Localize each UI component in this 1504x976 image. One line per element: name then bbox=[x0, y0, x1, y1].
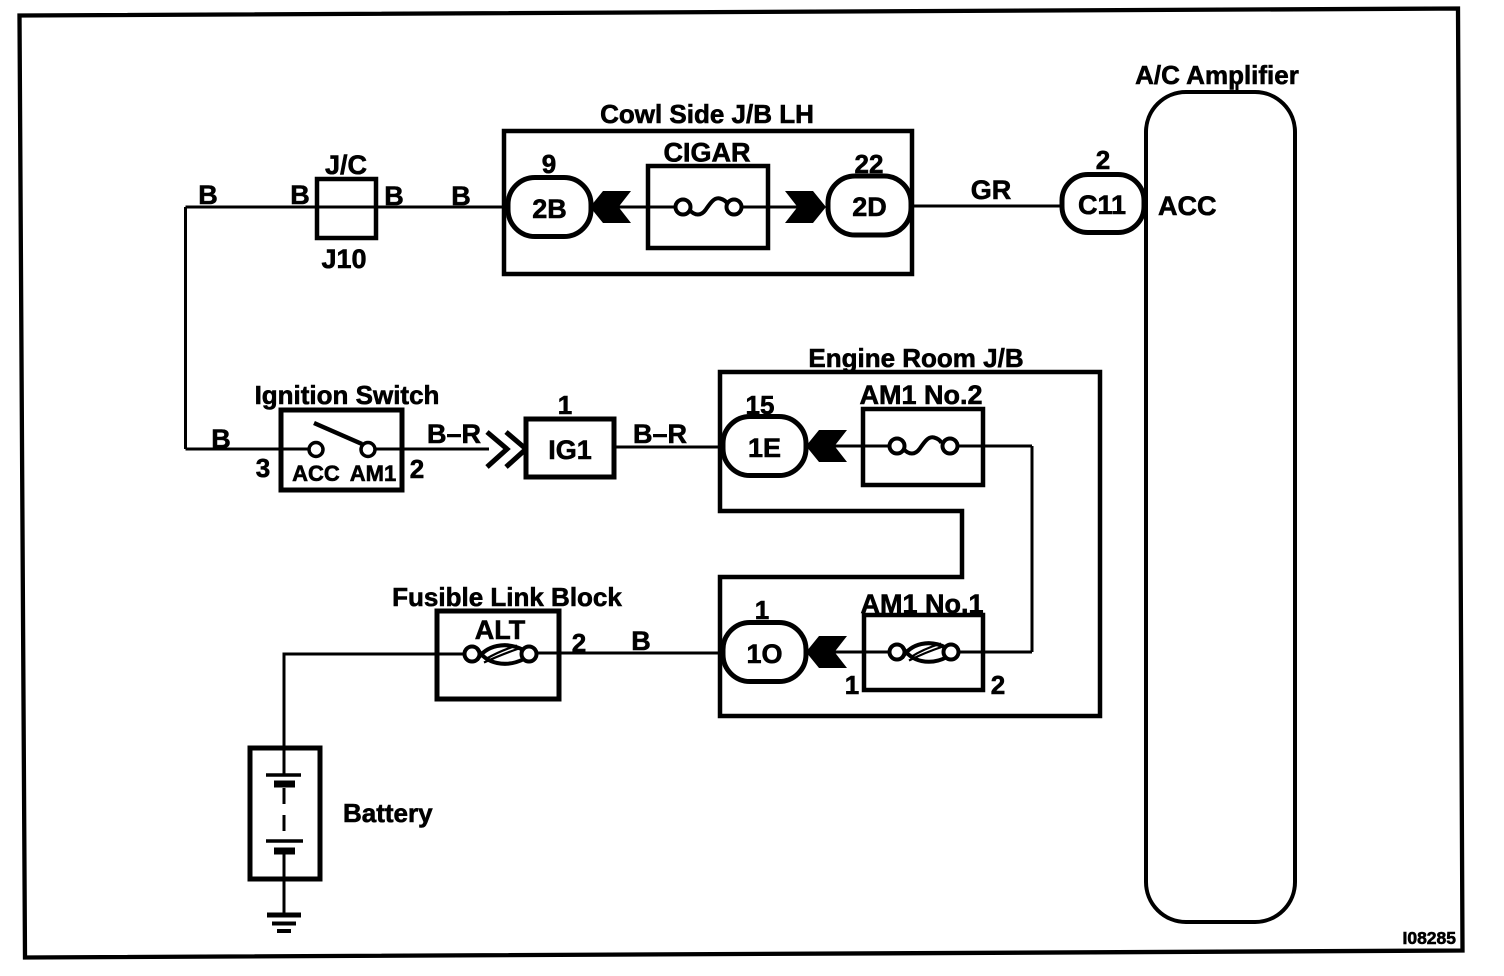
svg-text:B: B bbox=[211, 424, 231, 454]
svg-text:2D: 2D bbox=[852, 192, 887, 222]
battery bbox=[250, 748, 433, 879]
svg-text:1O: 1O bbox=[746, 639, 782, 669]
wire: GR wire from connector 2D to connector C11 bbox=[909, 205, 1066, 208]
connector 2D pin 22 bbox=[828, 149, 911, 235]
svg-text:ACC: ACC bbox=[292, 461, 340, 486]
wire: from arrow at 1E to fuse AM1 No.2 bbox=[834, 445, 897, 448]
wire: B wire from connector 1O to fusible link ALT bbox=[529, 652, 727, 655]
svg-text:ALT: ALT bbox=[475, 615, 526, 645]
svg-text:9: 9 bbox=[542, 149, 556, 179]
svg-text:2: 2 bbox=[410, 454, 424, 484]
fuse AM1 No.2 bbox=[859, 380, 983, 485]
svg-text:J/C: J/C bbox=[325, 150, 367, 180]
connector 2B pin 9 bbox=[508, 149, 591, 237]
connector 1O pin 1 bbox=[723, 595, 806, 682]
wire: vertical B wire down-leg from top row to ignition switch row bbox=[184, 207, 187, 449]
connector IG1 pin 1 bbox=[526, 390, 614, 477]
wire: battery negative lead to ground bbox=[283, 851, 286, 915]
svg-text:I08285: I08285 bbox=[1402, 928, 1456, 948]
svg-text:B: B bbox=[451, 181, 471, 211]
wire: wire from fusible link ALT to battery elbow bbox=[284, 654, 472, 748]
svg-text:1E: 1E bbox=[748, 433, 781, 463]
wire: B wire from elbow through J/C J10 to connector 2B bbox=[186, 206, 513, 209]
svg-text:B: B bbox=[198, 180, 218, 210]
wire: from fusible link AM1 No.1 to arrow at 1O bbox=[834, 651, 897, 654]
arrow into connector 1E bbox=[806, 430, 847, 462]
inline male connector chevrons into IG1 bbox=[487, 432, 526, 467]
wire: B-R wire from ignition switch AM1 to chevron connector bbox=[368, 448, 489, 451]
svg-text:IG1: IG1 bbox=[548, 435, 592, 465]
svg-text:GR: GR bbox=[971, 175, 1012, 205]
svg-text:1: 1 bbox=[558, 390, 572, 420]
svg-text:J10: J10 bbox=[321, 244, 366, 274]
svg-text:3: 3 bbox=[256, 453, 270, 483]
svg-text:B–R: B–R bbox=[633, 419, 687, 449]
fuse CIGAR bbox=[648, 138, 768, 249]
wire: from fuse CIGAR to arrow at 2D bbox=[734, 206, 800, 209]
svg-text:A/C Amplifier: A/C Amplifier bbox=[1135, 60, 1299, 90]
svg-text:Engine Room J/B: Engine Room J/B bbox=[808, 343, 1023, 373]
wire: from riser to fusible link AM1 No.1 bbox=[951, 651, 1032, 654]
svg-text:AM1 No.2: AM1 No.2 bbox=[859, 380, 982, 410]
arrow into connector 1O bbox=[806, 636, 847, 668]
svg-text:2: 2 bbox=[1096, 145, 1110, 175]
svg-text:B: B bbox=[290, 180, 310, 210]
svg-text:C11: C11 bbox=[1078, 190, 1126, 220]
svg-text:ACC: ACC bbox=[1158, 191, 1217, 221]
junction block: Cowl Side J/B LH bbox=[504, 99, 912, 274]
svg-text:B: B bbox=[384, 181, 404, 211]
A/C Amplifier component body bbox=[1135, 60, 1299, 922]
svg-text:1: 1 bbox=[845, 670, 859, 700]
svg-text:2: 2 bbox=[991, 670, 1005, 700]
wire: B-R wire from IG1 to connector 1E bbox=[614, 446, 727, 449]
svg-text:B–R: B–R bbox=[427, 419, 481, 449]
svg-text:B: B bbox=[631, 626, 651, 656]
wire: from fuse AM1 No.2 right to junction riser bbox=[950, 445, 1032, 448]
svg-text:2: 2 bbox=[572, 628, 586, 658]
svg-text:AM1: AM1 bbox=[350, 461, 396, 486]
Fusible Link Block bbox=[392, 582, 622, 699]
svg-text:Fusible Link Block: Fusible Link Block bbox=[392, 582, 622, 612]
arrow into connector 2B bbox=[590, 191, 631, 223]
svg-text:Ignition Switch: Ignition Switch bbox=[255, 380, 440, 410]
connector 1E pin 15 bbox=[723, 390, 806, 476]
fusible link AM1 No.1 bbox=[860, 589, 983, 690]
arrow into connector 2D bbox=[785, 191, 826, 223]
wire: from arrow to fuse CIGAR bbox=[618, 206, 683, 209]
junction connector J/C J10 bbox=[317, 150, 376, 274]
svg-text:CIGAR: CIGAR bbox=[664, 138, 751, 168]
svg-text:Battery: Battery bbox=[343, 798, 433, 828]
Ignition Switch bbox=[255, 380, 440, 490]
ground bbox=[267, 915, 301, 931]
junction block: Engine Room J/B bbox=[720, 343, 1100, 716]
wire: B wire from elbow into ignition switch bbox=[186, 448, 317, 451]
svg-text:Cowl Side J/B LH: Cowl Side J/B LH bbox=[600, 99, 814, 129]
connector C11 pin 2 bbox=[1062, 145, 1144, 233]
fusible link ALT bbox=[465, 615, 537, 664]
wire: riser between AM1 No.2 and AM1 No.1 bbox=[1031, 446, 1034, 652]
svg-text:2B: 2B bbox=[532, 194, 567, 224]
